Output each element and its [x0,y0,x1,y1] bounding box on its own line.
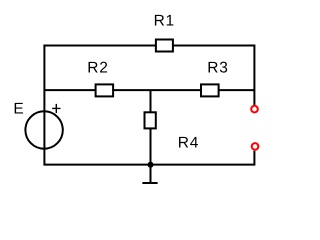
svg-text:R3: R3 [207,59,228,76]
svg-text:R4: R4 [178,135,199,152]
svg-text:E: E [13,100,24,117]
svg-text:R2: R2 [87,59,108,76]
svg-text:R1: R1 [154,12,175,29]
